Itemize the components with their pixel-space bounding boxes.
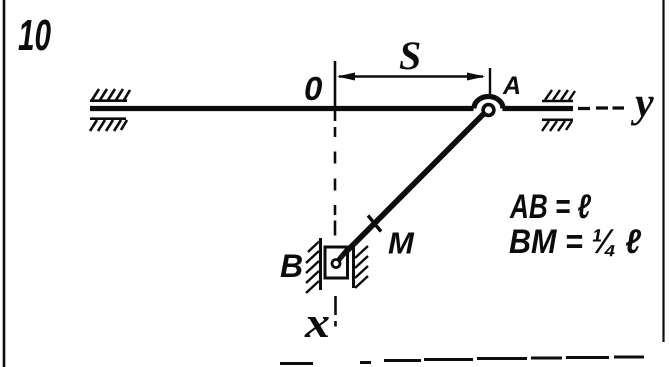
svg-text:x: x <box>304 300 330 347</box>
svg-text:B: B <box>280 248 303 284</box>
svg-text:A: A <box>502 72 521 100</box>
svg-text:0: 0 <box>304 70 323 107</box>
svg-text:10: 10 <box>18 11 51 60</box>
svg-text:BM = ¼ ℓ: BM = ¼ ℓ <box>509 223 641 261</box>
svg-text:AB = ℓ: AB = ℓ <box>509 188 591 226</box>
svg-text:S: S <box>399 33 421 78</box>
svg-text:M: M <box>388 226 415 261</box>
